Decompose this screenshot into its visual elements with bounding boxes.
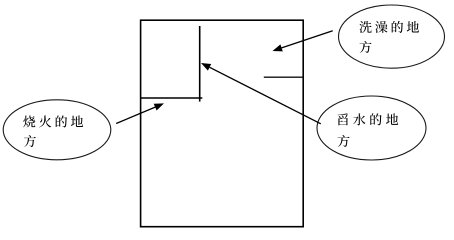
inner partition horizontal wall (141, 97, 203, 99)
arrowhead to partition corner (154, 103, 164, 110)
text: bathing place line 2 (360, 41, 372, 53)
arrowhead to inner wall (201, 63, 211, 71)
ellipse: bathing place label (339, 5, 445, 68)
inner partition vertical wall (199, 26, 201, 102)
text: fire place line 1 (23, 115, 83, 127)
ellipse: water scooping place label (317, 96, 426, 160)
room outline rectangle (141, 20, 304, 227)
arrowhead to room interior (273, 44, 283, 51)
arrow line from water ellipse to inner wall (210, 67, 321, 124)
text: fire place line 2 (24, 135, 36, 147)
arrow line from fire ellipse to partition (116, 107, 155, 123)
ellipse: fire place label (3, 100, 111, 160)
door/window mark on right wall (264, 76, 303, 78)
text: water place line 1 (338, 113, 399, 125)
arrow line from bathing ellipse to room (282, 31, 333, 48)
text: bathing place line 1 (359, 21, 419, 33)
text: water place line 2 (338, 135, 350, 147)
